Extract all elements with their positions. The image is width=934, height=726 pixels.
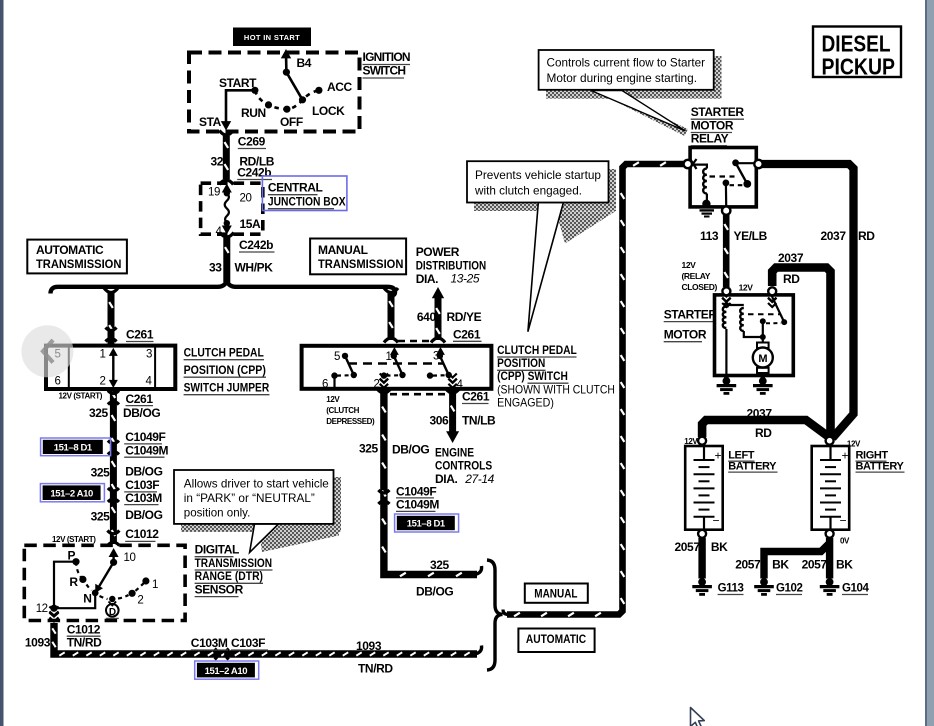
callout controls box bbox=[539, 50, 714, 90]
label box MANUAL TRANSMISSION bbox=[310, 239, 406, 275]
ground G102 bbox=[754, 578, 802, 594]
wire 325 DB/OG chain to DTR bbox=[112, 391, 116, 544]
wire 1093 TN/RD bbox=[52, 623, 477, 656]
svg-text:2057: 2057 bbox=[802, 558, 828, 572]
svg-text:RUN: RUN bbox=[241, 106, 266, 120]
svg-text:6: 6 bbox=[322, 379, 328, 391]
callout allows box bbox=[174, 470, 334, 524]
svg-text:MOTOR: MOTOR bbox=[664, 328, 707, 342]
svg-text:CONTROLS: CONTROLS bbox=[435, 459, 492, 473]
title LEFT BATTERY bbox=[728, 450, 777, 473]
svg-text:+: + bbox=[842, 449, 849, 463]
flare at bus bbox=[104, 288, 118, 293]
label C1049F right bbox=[396, 484, 436, 498]
svg-text:RD: RD bbox=[783, 272, 800, 286]
DTR wiper bbox=[92, 559, 117, 597]
starter ground left bbox=[717, 376, 737, 394]
wire 33 WH/PK bbox=[225, 238, 229, 282]
svg-text:12V (START): 12V (START) bbox=[59, 392, 103, 401]
wire 325 DB/OG manual side bbox=[382, 391, 477, 577]
svg-text:ENGAGED): ENGAGED) bbox=[497, 396, 554, 410]
svg-text:325: 325 bbox=[430, 558, 450, 572]
wire START to STA output bbox=[221, 90, 255, 130]
label C1012 bbox=[125, 527, 159, 541]
hyperlink box 151-2 A10 left bbox=[40, 484, 104, 502]
CPP pole 3-4 bbox=[427, 347, 457, 388]
connector C242b upper half bbox=[219, 180, 233, 185]
connector C261 top right stub bbox=[431, 338, 445, 343]
relay switch bbox=[723, 159, 758, 206]
ignition contact START bbox=[251, 87, 258, 94]
mouse cursor bbox=[691, 708, 705, 726]
label C242b 2 bbox=[239, 238, 275, 252]
callout allows driver shadow bbox=[181, 477, 341, 552]
label POWER DISTRIBUTION DIA. 13-25 bbox=[416, 245, 487, 286]
CPP pole 1-2 bbox=[380, 347, 406, 388]
svg-text:AUTOMATIC: AUTOMATIC bbox=[526, 632, 587, 646]
svg-text:C261: C261 bbox=[453, 328, 481, 342]
svg-text:151–8 D1: 151–8 D1 bbox=[407, 519, 446, 530]
flare below pin2 bbox=[377, 389, 391, 394]
svg-text:CLUTCH PEDAL: CLUTCH PEDAL bbox=[184, 346, 264, 360]
svg-text:ACC: ACC bbox=[327, 80, 353, 94]
callout controls current shadow bbox=[546, 56, 722, 136]
label ENGINE CONTROLS DIA. 27-14 bbox=[435, 445, 495, 486]
svg-text:C103F: C103F bbox=[231, 636, 265, 650]
connector C261 dashed plane top bbox=[398, 340, 432, 343]
svg-text:B4: B4 bbox=[297, 56, 312, 70]
wire 306 TN/LB bbox=[446, 391, 459, 444]
label C242b bbox=[237, 166, 272, 180]
svg-text:2037: 2037 bbox=[747, 407, 773, 421]
starter motor box bbox=[715, 295, 794, 376]
connector C1049 right bbox=[378, 490, 389, 493]
svg-text:CLUTCH PEDAL: CLUTCH PEDAL bbox=[497, 343, 577, 357]
starter motor windings bbox=[723, 302, 766, 374]
svg-text:STA: STA bbox=[199, 115, 222, 129]
title RIGHT BATTERY bbox=[856, 450, 905, 473]
svg-text:C103M: C103M bbox=[191, 636, 228, 650]
title IGNITION SWITCH bbox=[363, 50, 411, 78]
svg-text:3: 3 bbox=[433, 351, 439, 363]
brace manual automatic bbox=[487, 560, 503, 670]
svg-text:5: 5 bbox=[334, 351, 340, 363]
relay arm dashes bbox=[710, 175, 735, 177]
wire 1093 end hook bbox=[474, 646, 482, 655]
label 12V RELAY CLOSED bbox=[682, 260, 718, 292]
wire 2057 BK branch to G102 bbox=[764, 543, 830, 579]
svg-text:Controls current flow to Start: Controls current flow to Starter bbox=[547, 56, 706, 70]
callout controls pointer bbox=[591, 91, 686, 132]
wire bus brace automatic/manual bbox=[51, 281, 396, 296]
wire bus to CPP switch bbox=[389, 291, 393, 340]
wire merge to starter relay bbox=[507, 162, 684, 616]
svg-text:2: 2 bbox=[137, 595, 143, 607]
wire 113 YE/LB bbox=[724, 214, 728, 287]
right battery bottom terminal bbox=[826, 530, 834, 538]
svg-text:C242b: C242b bbox=[239, 238, 273, 252]
svg-text:DB/OG: DB/OG bbox=[392, 442, 429, 456]
svg-text:4: 4 bbox=[146, 376, 153, 388]
svg-text:RD/YE: RD/YE bbox=[447, 310, 482, 324]
svg-text:C261: C261 bbox=[126, 328, 154, 342]
svg-text:13-25: 13-25 bbox=[451, 272, 480, 286]
svg-text:19: 19 bbox=[208, 187, 220, 199]
svg-text:12V: 12V bbox=[326, 395, 340, 404]
svg-text:12V: 12V bbox=[684, 437, 698, 446]
wire B4 feed bbox=[281, 49, 291, 72]
svg-text:M: M bbox=[758, 353, 767, 365]
ground G113 bbox=[692, 578, 743, 594]
svg-text:PICKUP: PICKUP bbox=[822, 54, 896, 80]
ignition contact ACC bbox=[315, 87, 322, 94]
ignition switch S1 bbox=[189, 53, 360, 132]
hyperlink box 151-8 D1 left bbox=[41, 438, 111, 456]
svg-text:DB/OG: DB/OG bbox=[125, 508, 162, 522]
label box MANUAL bbox=[525, 584, 588, 603]
ignition contact OFF bbox=[283, 106, 290, 113]
svg-text:OFF: OFF bbox=[280, 115, 303, 129]
CPP link dashes bbox=[348, 362, 444, 364]
connector C103 left bbox=[108, 488, 119, 491]
svg-text:1093: 1093 bbox=[25, 636, 51, 650]
svg-text:6: 6 bbox=[55, 376, 61, 388]
svg-text:IGNITION: IGNITION bbox=[363, 50, 410, 64]
wire 2037 RD outer bbox=[762, 164, 854, 438]
video back button overlay bbox=[21, 325, 73, 377]
svg-text:TN/RD: TN/RD bbox=[67, 636, 102, 650]
svg-text:C242b: C242b bbox=[237, 166, 271, 180]
relay terminal right bbox=[754, 160, 762, 168]
label C261 top right bbox=[453, 328, 482, 342]
connector C269 bbox=[219, 131, 233, 136]
svg-text:C103M: C103M bbox=[125, 491, 162, 505]
svg-text:12V: 12V bbox=[682, 260, 697, 270]
label box AUTOMATIC bbox=[518, 629, 594, 653]
hyperlink box 151-2 A10 bottom bbox=[195, 661, 259, 679]
svg-text:G102: G102 bbox=[776, 583, 803, 595]
svg-text:SWITCH JUMPER: SWITCH JUMPER bbox=[184, 381, 270, 395]
DTR contact 1 bbox=[142, 577, 149, 584]
svg-text:TN/LB: TN/LB bbox=[462, 414, 496, 428]
label box AUTOMATIC TRANSMISSION bbox=[27, 240, 127, 274]
CPP pole 5-6 bbox=[331, 353, 357, 387]
relay terminal left bbox=[684, 160, 692, 168]
wire 32 RD/LB bbox=[225, 136, 229, 179]
svg-text:−: − bbox=[840, 514, 847, 528]
svg-text:N: N bbox=[83, 592, 91, 606]
CPP switch box bbox=[302, 346, 492, 389]
svg-text:in “PARK” or “NEUTRAL”: in “PARK” or “NEUTRAL” bbox=[184, 491, 315, 505]
page left edge bar bbox=[0, 0, 4, 726]
svg-text:POSITION (CPP): POSITION (CPP) bbox=[184, 363, 266, 377]
svg-text:DB/OG: DB/OG bbox=[416, 585, 453, 599]
svg-text:DB/OG: DB/OG bbox=[125, 465, 162, 479]
connector C242b lower half bbox=[220, 233, 234, 238]
wire 2037 RD inner bbox=[772, 268, 830, 438]
DTR contact arc dashes bbox=[76, 562, 146, 599]
svg-text:LOCK: LOCK bbox=[312, 104, 345, 118]
svg-text:(CLUTCH: (CLUTCH bbox=[326, 406, 359, 415]
ignition contact RUN bbox=[265, 101, 272, 108]
svg-text:RD: RD bbox=[755, 426, 772, 440]
svg-text:STARTER: STARTER bbox=[691, 105, 745, 119]
svg-text:2037: 2037 bbox=[778, 251, 804, 265]
label C1049F bbox=[124, 430, 165, 444]
svg-text:325: 325 bbox=[91, 509, 111, 523]
svg-text:MANUAL: MANUAL bbox=[318, 243, 368, 257]
label C261 bottom right bbox=[462, 390, 490, 404]
connector C1049 left bbox=[108, 441, 119, 444]
svg-text:SENSOR: SENSOR bbox=[195, 582, 244, 596]
svg-text:POSITION: POSITION bbox=[497, 356, 545, 370]
relay chevron at input bbox=[690, 158, 697, 169]
svg-text:MOTOR: MOTOR bbox=[691, 118, 734, 132]
label C261 below jumper bbox=[126, 392, 154, 406]
svg-text:C269: C269 bbox=[238, 135, 266, 149]
svg-text:R: R bbox=[69, 575, 78, 589]
title box DIESEL PICKUP bbox=[813, 27, 901, 80]
svg-text:Allows driver to start vehicle: Allows driver to start vehicle bbox=[184, 477, 329, 491]
relay terminal bottom bbox=[722, 206, 730, 214]
svg-text:C103F: C103F bbox=[125, 478, 159, 492]
svg-text:C261: C261 bbox=[126, 392, 154, 406]
ignition wiper bbox=[283, 69, 303, 100]
ignition contact arc dashes bbox=[255, 90, 319, 109]
svg-text:BK: BK bbox=[772, 558, 789, 572]
svg-text:C1049F: C1049F bbox=[125, 430, 165, 444]
svg-text:RANGE (DTR): RANGE (DTR) bbox=[195, 569, 263, 583]
svg-text:DB/OG: DB/OG bbox=[123, 406, 160, 420]
svg-text:1: 1 bbox=[152, 579, 158, 591]
svg-text:(CPP) SWITCH: (CPP) SWITCH bbox=[497, 369, 568, 383]
connector C261 top left stub bbox=[384, 338, 398, 343]
callout allows pointer bbox=[250, 524, 279, 553]
svg-text:YE/LB: YE/LB bbox=[734, 229, 768, 243]
svg-text:WH/PK: WH/PK bbox=[235, 261, 274, 275]
svg-text:D: D bbox=[109, 607, 116, 618]
starter terminal right bbox=[768, 287, 776, 295]
svg-text:2057: 2057 bbox=[675, 540, 701, 554]
label C1049M right bbox=[396, 498, 439, 512]
connector C261 below jumper bbox=[108, 391, 119, 394]
svg-text:BK: BK bbox=[836, 558, 853, 572]
svg-text:BATTERY: BATTERY bbox=[728, 460, 777, 472]
svg-text:325: 325 bbox=[91, 466, 111, 480]
svg-text:1: 1 bbox=[100, 349, 106, 361]
svg-text:DIA.: DIA. bbox=[416, 272, 438, 286]
svg-text:151–2 A10: 151–2 A10 bbox=[50, 488, 93, 499]
svg-text:−: − bbox=[713, 514, 720, 528]
svg-text:2057: 2057 bbox=[735, 558, 761, 572]
wire 2037 RD battery link bbox=[702, 420, 831, 439]
right battery terminal bbox=[826, 437, 834, 445]
starter motor M bbox=[753, 337, 773, 375]
wire 325 manual end hook bbox=[474, 566, 482, 575]
wire 640 RD/YE bbox=[432, 287, 444, 340]
svg-text:306: 306 bbox=[430, 414, 450, 428]
jumper internal wire bbox=[109, 348, 118, 388]
DTR input arrow pin 10 bbox=[109, 548, 119, 562]
starter motor arrows at terminals bbox=[722, 293, 776, 308]
svg-text:STARTER: STARTER bbox=[664, 308, 718, 322]
starter terminal left bbox=[722, 287, 730, 295]
svg-text:DISTRIBUTION: DISTRIBUTION bbox=[416, 259, 487, 273]
connector C1012 bbox=[107, 531, 119, 534]
label C103M bbox=[124, 491, 162, 505]
svg-text:SWITCH: SWITCH bbox=[363, 64, 406, 78]
svg-text:325: 325 bbox=[359, 442, 379, 456]
svg-text:20: 20 bbox=[240, 193, 252, 205]
svg-text:10: 10 bbox=[124, 552, 136, 564]
svg-text:TRANSMISSION: TRANSMISSION bbox=[318, 257, 403, 271]
circuit breaker element bbox=[222, 184, 232, 235]
svg-text:32: 32 bbox=[211, 155, 224, 169]
svg-text:P: P bbox=[68, 549, 76, 563]
svg-text:G113: G113 bbox=[718, 583, 744, 595]
svg-text:CLOSED): CLOSED) bbox=[682, 282, 718, 292]
svg-text:RD: RD bbox=[858, 229, 875, 243]
DTR sensor box bbox=[24, 545, 185, 620]
svg-text:640: 640 bbox=[417, 310, 437, 324]
svg-text:START: START bbox=[219, 76, 257, 90]
svg-text:TN/RD: TN/RD bbox=[358, 662, 393, 676]
svg-text:33: 33 bbox=[209, 261, 222, 275]
svg-text:0V: 0V bbox=[840, 537, 850, 546]
callout prevents box bbox=[467, 161, 609, 202]
svg-text:(RELAY: (RELAY bbox=[682, 271, 711, 281]
svg-text:G104: G104 bbox=[842, 583, 870, 595]
DTR contact P bbox=[72, 558, 79, 565]
svg-text:TRANSMISSION: TRANSMISSION bbox=[36, 257, 121, 271]
DTR contact D bbox=[106, 596, 119, 619]
svg-text:JUNCTION BOX: JUNCTION BOX bbox=[268, 195, 346, 209]
svg-text:C1049F: C1049F bbox=[396, 484, 436, 498]
connector C261 jumper bbox=[106, 328, 117, 331]
label C261 jumper bbox=[126, 328, 154, 342]
svg-text:12V: 12V bbox=[739, 283, 754, 293]
connector C261 dashed plane bottom bbox=[390, 393, 447, 396]
svg-text:CENTRAL: CENTRAL bbox=[268, 181, 323, 195]
svg-text:C1012: C1012 bbox=[125, 527, 159, 541]
svg-text:HOT IN START: HOT IN START bbox=[244, 33, 300, 42]
svg-text:3: 3 bbox=[146, 349, 152, 361]
relay coil bbox=[691, 165, 707, 203]
DTR contact 2 bbox=[129, 590, 136, 597]
svg-text:(SHOWN WITH CLUTCH: (SHOWN WITH CLUTCH bbox=[497, 383, 615, 397]
svg-text:151–2 A10: 151–2 A10 bbox=[205, 666, 248, 677]
label C1049M bbox=[124, 443, 168, 457]
svg-text:position only.: position only. bbox=[184, 506, 251, 520]
relay coil ground bbox=[700, 200, 715, 217]
svg-text:C1049M: C1049M bbox=[396, 498, 439, 512]
flare at bus right bbox=[384, 288, 398, 293]
callout prevents vehicle startup shadow bbox=[474, 169, 616, 244]
starter solenoid dashes bbox=[748, 313, 780, 315]
svg-text:TRANSMISSION: TRANSMISSION bbox=[195, 556, 273, 570]
starter motor relay box bbox=[690, 148, 756, 207]
starter switch bbox=[760, 297, 787, 337]
wire bus to CPP jumper bbox=[109, 291, 113, 345]
title STARTER MOTOR RELAY bbox=[691, 105, 745, 146]
svg-text:1093: 1093 bbox=[356, 639, 382, 653]
title DIGITAL TRANSMISSION RANGE (DTR) SENSOR bbox=[195, 543, 273, 597]
label 12V CLUTCH DEPRESSED bbox=[326, 395, 375, 426]
svg-text:DIGITAL: DIGITAL bbox=[195, 543, 239, 557]
svg-text:325: 325 bbox=[89, 406, 109, 420]
left battery bottom terminal bbox=[698, 530, 706, 538]
svg-text:151–8 D1: 151–8 D1 bbox=[54, 443, 93, 454]
svg-text:15A: 15A bbox=[240, 217, 262, 231]
page right edge bar bbox=[925, 0, 934, 726]
svg-text:2: 2 bbox=[100, 376, 106, 388]
right battery B2 bbox=[812, 446, 850, 530]
title STARTER MOTOR bbox=[664, 308, 718, 342]
svg-text:ENGINE: ENGINE bbox=[435, 445, 474, 459]
hyperlink box 151-8 D1 right bbox=[395, 514, 459, 532]
hook at brace cusp bbox=[503, 610, 508, 615]
svg-text:BATTERY: BATTERY bbox=[856, 460, 905, 472]
svg-text:2037: 2037 bbox=[821, 229, 847, 243]
DTR contact R bbox=[79, 576, 86, 583]
svg-text:12V (START): 12V (START) bbox=[52, 535, 96, 544]
svg-text:RELAY: RELAY bbox=[691, 132, 729, 146]
label C1012 lower bbox=[67, 623, 101, 637]
label C103M C103F bbox=[191, 636, 268, 650]
svg-text:Motor during engine starting.: Motor during engine starting. bbox=[547, 71, 698, 85]
svg-text:1: 1 bbox=[386, 351, 392, 363]
title CLUTCH PEDAL POSITION (CPP) SWITCH JUMPER bbox=[184, 346, 270, 395]
svg-text:Prevents vehicle startup: Prevents vehicle startup bbox=[475, 168, 601, 182]
starter ground right bbox=[753, 376, 773, 394]
svg-text:C1049M: C1049M bbox=[125, 443, 168, 457]
CPP switch jumper bbox=[46, 346, 175, 389]
wire 2057 BK right to G104 bbox=[826, 538, 833, 579]
svg-text:113: 113 bbox=[700, 229, 719, 243]
svg-text:AUTOMATIC: AUTOMATIC bbox=[36, 243, 104, 257]
svg-text:C1012: C1012 bbox=[67, 623, 101, 637]
svg-text:POWER: POWER bbox=[416, 245, 460, 259]
svg-text:12: 12 bbox=[36, 603, 48, 615]
svg-text:DIA.: DIA. bbox=[435, 472, 457, 486]
left battery B1 bbox=[685, 446, 723, 530]
wire 2057 BK left bbox=[698, 538, 705, 579]
svg-text:+: + bbox=[715, 449, 722, 463]
title CLUTCH PEDAL POSITION (CPP) SWITCH bbox=[497, 343, 615, 410]
central junction box bbox=[201, 183, 263, 234]
ignition contact LOCK bbox=[299, 96, 306, 103]
flare below pin4 bbox=[446, 389, 460, 394]
label C103F bbox=[124, 478, 159, 492]
callout prevents pointer bbox=[528, 203, 564, 332]
DTR wire N P to pin 12 bbox=[49, 562, 95, 622]
title CENTRAL JUNCTION BOX with selection box bbox=[262, 176, 347, 211]
left battery terminal bbox=[698, 437, 706, 445]
svg-text:BK: BK bbox=[711, 540, 728, 554]
ground G104 bbox=[820, 578, 870, 594]
connector C103 bottom bbox=[215, 649, 218, 660]
svg-text:MANUAL: MANUAL bbox=[534, 586, 577, 600]
svg-text:with clutch engaged.: with clutch engaged. bbox=[474, 184, 582, 198]
svg-text:C261: C261 bbox=[462, 390, 490, 404]
power label HOT IN START bbox=[233, 28, 311, 47]
svg-text:DEPRESSED): DEPRESSED) bbox=[326, 417, 375, 426]
svg-text:27-14: 27-14 bbox=[464, 472, 494, 486]
label C269 bbox=[238, 135, 266, 149]
